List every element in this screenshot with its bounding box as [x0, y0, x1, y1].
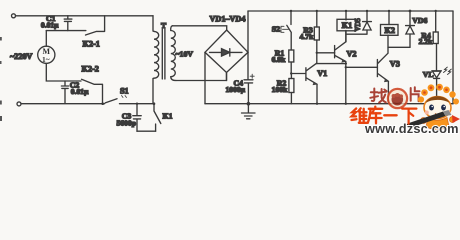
- svg-text:VD5: VD5: [355, 18, 362, 32]
- svg-text:~10V: ~10V: [176, 50, 194, 59]
- wire C3-K1 bottom link: [137, 130, 156, 132]
- svg-text:100k: 100k: [272, 85, 288, 94]
- transformer T secondary winding: [171, 26, 176, 81]
- wire DC minus drop from left corner: [204, 52, 206, 103]
- relay coil K2: [381, 11, 399, 35]
- watermark stamp: pian (chip) character: [411, 87, 420, 101]
- mascot face: [424, 96, 451, 118]
- stamp circle with fist: [388, 89, 407, 108]
- resistor R4: [433, 11, 438, 44]
- scan specks left edge: [0, 37, 2, 121]
- bridge rectifier VD1-VD4 diamond: [205, 30, 248, 73]
- watermark text weiku (wei char): [352, 108, 368, 123]
- diode VD6: [406, 11, 415, 47]
- transformer core: [162, 29, 165, 79]
- wire motor top: [45, 31, 47, 47]
- wire DC plus riser: [247, 11, 249, 52]
- wire secondary bottom lead: [176, 73, 227, 81]
- svg-text:www.dzsc.com: www.dzsc.com: [364, 121, 459, 135]
- watermark stamp: zhao (find) character: [370, 89, 386, 103]
- LED light arrows: [444, 67, 452, 74]
- svg-text:K2-1: K2-1: [83, 40, 100, 49]
- wire K1 bottom to collector: [345, 31, 347, 42]
- wire V2 base link: [317, 52, 335, 54]
- svg-text:K2-2: K2-2: [82, 64, 99, 73]
- svg-text:VD1–VD4: VD1–VD4: [210, 14, 246, 23]
- wire K2 bottom node: [388, 35, 410, 47]
- wire right edge: [452, 11, 454, 104]
- svg-text:S2: S2: [272, 24, 280, 33]
- capacitor C3: [133, 104, 141, 132]
- mascot crown: [418, 84, 459, 105]
- wire R4 to LED: [436, 44, 438, 71]
- transistor V3: [377, 47, 388, 103]
- svg-text:S1: S1: [120, 87, 129, 96]
- junction dot primary bottom: [153, 102, 156, 105]
- wire V3 base from V2 emitter column: [346, 66, 378, 68]
- wire motor bottom: [46, 63, 81, 81]
- svg-text:4.7k: 4.7k: [300, 32, 314, 41]
- wire secondary top lead: [173, 26, 227, 30]
- capacitor C2: [61, 81, 68, 104]
- rail junction dots: [136, 10, 437, 105]
- wire R3 to V2 base column: [316, 40, 318, 64]
- motor M: [38, 46, 55, 63]
- wire node A horizontal: [46, 30, 86, 32]
- transistor V2: [335, 31, 346, 104]
- svg-text:V2: V2: [347, 49, 357, 58]
- svg-text:6.8k: 6.8k: [272, 55, 286, 64]
- wire bottom rail left (AC): [21, 103, 105, 105]
- wire top DC rail: [248, 10, 453, 12]
- svg-text:0.01μ: 0.01μ: [71, 87, 89, 96]
- svg-text:V1: V1: [317, 69, 327, 78]
- resistor R1: [289, 50, 294, 62]
- junction dot ground: [247, 102, 251, 106]
- watermark text yi (dash char): [384, 114, 396, 116]
- svg-text:~220V: ~220V: [10, 52, 33, 61]
- wire R1 to base node: [290, 62, 292, 74]
- switch K1 (relay contact): [154, 104, 161, 132]
- svg-text:VL: VL: [423, 70, 434, 79]
- relay coil K1: [337, 11, 356, 31]
- svg-text:K1: K1: [163, 111, 173, 120]
- resistor R3: [314, 11, 319, 40]
- red arrow tip bottom right: [452, 115, 460, 123]
- transformer T primary winding: [153, 16, 159, 104]
- LED VL: [432, 71, 441, 104]
- wire bottom corner drop: [226, 73, 228, 81]
- watermark text ku (ku char): [368, 107, 382, 124]
- svg-text:1000μ: 1000μ: [226, 85, 246, 94]
- switch K2-1: [86, 16, 105, 35]
- switch S1: [105, 96, 126, 103]
- wire plus column to C4: [247, 52, 249, 80]
- wire top rail left (AC): [16, 15, 154, 17]
- wire bottom rail resumes: [120, 103, 155, 105]
- resistor R2: [289, 74, 294, 104]
- transistor V1: [291, 63, 317, 103]
- svg-text:K2: K2: [385, 26, 395, 35]
- junction dot VD6 rail: [409, 10, 412, 13]
- terminal top-left: [12, 14, 16, 18]
- switch S2 with pushbutton: [281, 11, 291, 50]
- wire mid bottom rail (DC ground rail): [205, 103, 453, 105]
- bridge internal diode: [210, 49, 243, 56]
- svg-text:VD6: VD6: [412, 16, 427, 25]
- switch K2-2: [82, 79, 103, 103]
- svg-text:5600p: 5600p: [117, 119, 136, 128]
- mascot body: [421, 117, 456, 130]
- watermark text xia (xia char): [402, 109, 416, 124]
- capacitor C4 electrolytic: [244, 80, 253, 104]
- capacitor C1: [64, 16, 72, 31]
- junction dot base node: [290, 72, 292, 74]
- terminal bottom-left: [17, 102, 21, 106]
- svg-text:K1: K1: [342, 21, 352, 30]
- svg-text:2.2k: 2.2k: [419, 37, 433, 46]
- junction dot K2-2 tap: [101, 102, 104, 105]
- plus sign C4: [250, 74, 254, 78]
- wire V1 collector to V2 emitter link: [317, 63, 346, 65]
- svg-text:1~: 1~: [42, 55, 50, 64]
- mascot pen: [406, 110, 452, 128]
- ground symbol: [242, 104, 256, 119]
- diode VD5: [346, 11, 371, 34]
- svg-text:V3: V3: [390, 59, 400, 68]
- svg-text:0.01μ: 0.01μ: [41, 21, 59, 30]
